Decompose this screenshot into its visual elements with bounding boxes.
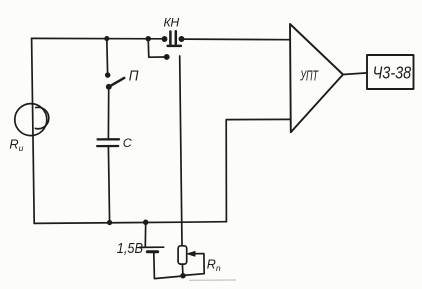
node lower contact dot (165, 55, 169, 59)
wire bottom bus (34, 222, 226, 224)
svg-text:Ч3-38: Ч3-38 (373, 63, 412, 83)
node bottom junction (181, 274, 185, 278)
source Rи (15, 104, 49, 136)
svg-text:1,5В: 1,5В (117, 239, 143, 256)
svg-text:С: С (123, 136, 133, 150)
wire switch to capacitor (107, 89, 109, 139)
node stub junction (146, 37, 150, 41)
wire bus to battery (144, 222, 146, 246)
smudge bottom edge (189, 279, 236, 281)
switch П (106, 39, 124, 89)
node top of switch П branch (105, 37, 108, 40)
frequency meter box Ч3-38 (367, 55, 414, 89)
wire stub to lower contact (148, 39, 164, 58)
potentiometer Rп body (178, 246, 187, 264)
op-amp УПТ triangle (290, 24, 343, 132)
battery 1,5В (140, 247, 164, 252)
wire capacitor to bus (108, 147, 109, 223)
node capacitor at bus (108, 221, 112, 225)
push-button КН (162, 31, 183, 46)
wire battery to bottom junction (154, 253, 182, 279)
wire top horizontal left (32, 37, 163, 39)
wire amplifier output (343, 73, 367, 75)
capacitor C (97, 139, 119, 146)
wire КН down to potentiometer (180, 56, 182, 246)
wire top horizontal right (183, 38, 290, 41)
wire left vertical (32, 38, 35, 223)
node battery at bus (144, 220, 148, 224)
potentiometer wiper arrow (183, 252, 204, 276)
wire potentiometer bottom stub (181, 264, 184, 275)
svg-text:П: П (129, 67, 140, 84)
svg-text:УПТ: УПТ (299, 67, 319, 84)
svg-text:КН: КН (164, 16, 180, 30)
wire amplifier lower input (226, 119, 290, 221)
